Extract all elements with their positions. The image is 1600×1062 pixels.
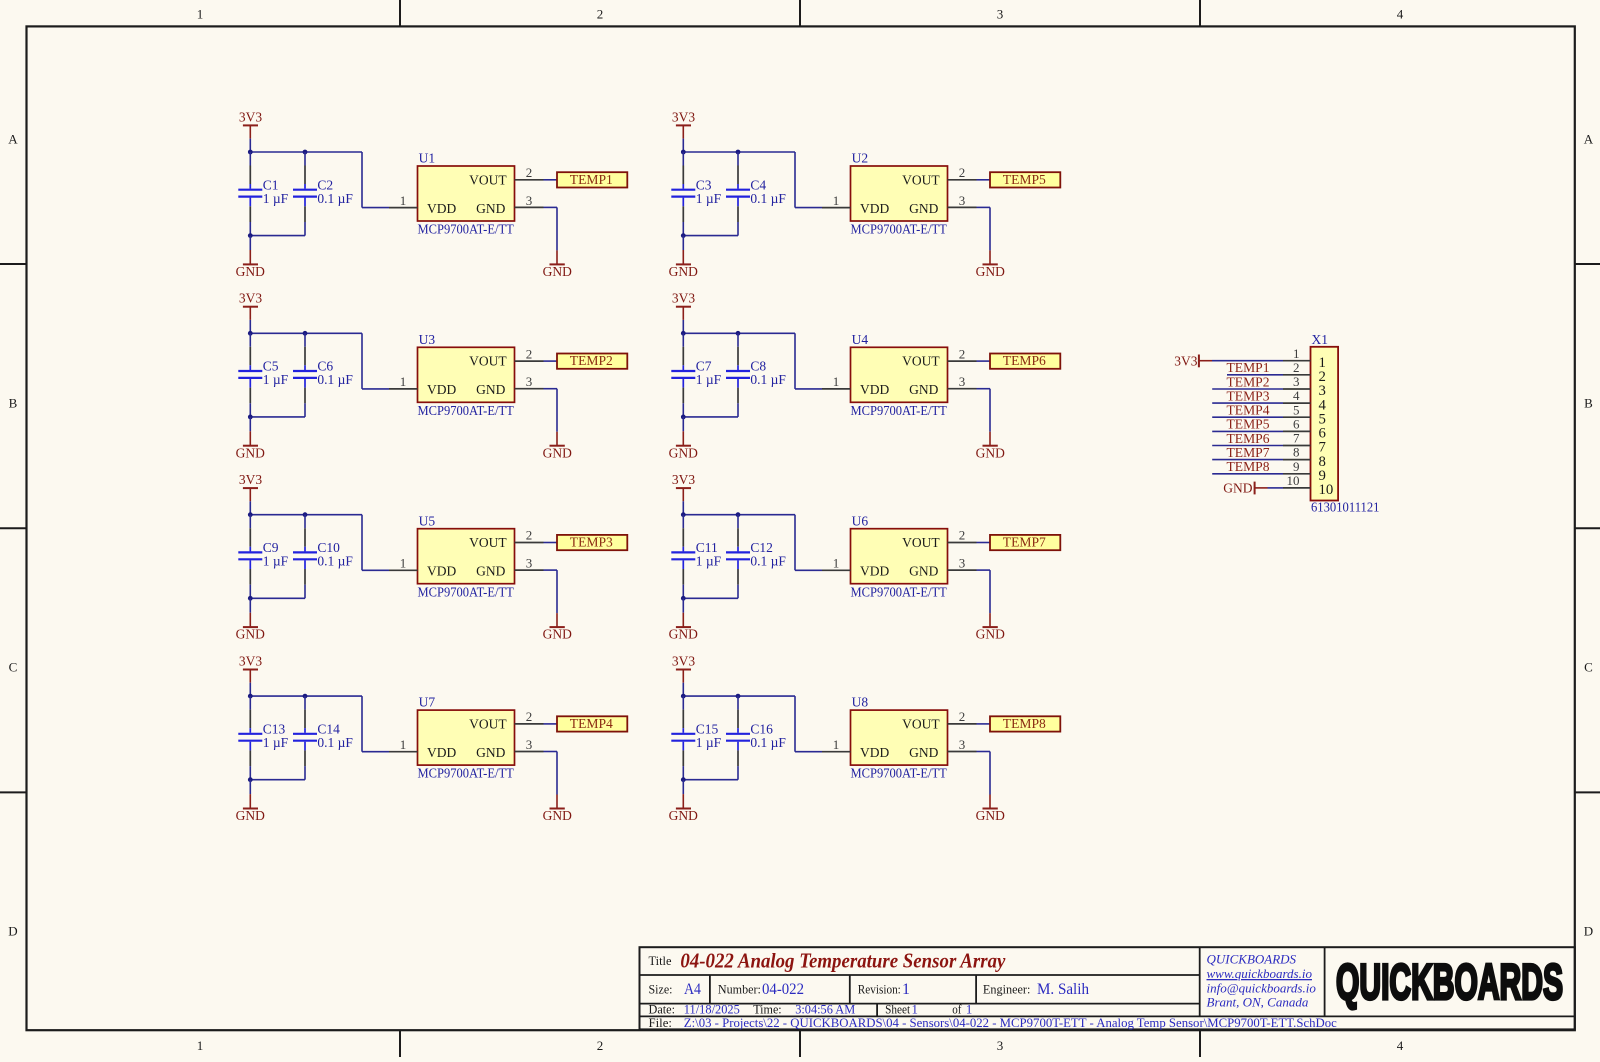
zone letters left bbox=[8, 131, 18, 938]
ground GND (X1 pin 10) bbox=[1223, 480, 1267, 495]
svg-text:TEMP4: TEMP4 bbox=[570, 716, 613, 731]
svg-text:1 µF: 1 µF bbox=[696, 554, 722, 569]
svg-text:3:04:56 AM: 3:04:56 AM bbox=[795, 1002, 855, 1016]
zone numbers top bbox=[197, 6, 1404, 21]
svg-text:GND: GND bbox=[976, 445, 1005, 460]
svg-text:MCP9700AT-E/TT: MCP9700AT-E/TT bbox=[418, 766, 515, 781]
wire to VDD pin bbox=[362, 152, 389, 208]
svg-text:VDD: VDD bbox=[427, 564, 456, 579]
svg-text:3: 3 bbox=[526, 374, 533, 389]
svg-text:4: 4 bbox=[1397, 1038, 1404, 1053]
svg-text:0.1 µF: 0.1 µF bbox=[750, 191, 786, 206]
X1 pin 4 bbox=[1283, 388, 1327, 413]
svg-text:GND: GND bbox=[669, 808, 698, 823]
wire VOUT to port bbox=[977, 179, 991, 181]
capacitor C15 1 µF bbox=[671, 696, 721, 780]
wire to VDD pin bbox=[795, 696, 822, 752]
wire cap bottoms bbox=[250, 597, 305, 599]
svg-text:QUICKBOARDS: QUICKBOARDS bbox=[1336, 954, 1563, 1010]
pin 1 VDD bbox=[389, 737, 418, 752]
svg-text:MCP9700AT-E/TT: MCP9700AT-E/TT bbox=[418, 584, 515, 599]
wire 3V3 stem bbox=[682, 139, 684, 152]
wire VOUT to port bbox=[977, 723, 991, 725]
X1 pin 1 bbox=[1283, 346, 1326, 371]
ground GND (right) bbox=[543, 613, 572, 642]
svg-text:VDD: VDD bbox=[427, 382, 456, 397]
pin 3 GND bbox=[515, 374, 544, 389]
ground GND (right) bbox=[976, 795, 1005, 824]
svg-text:A: A bbox=[8, 131, 18, 146]
svg-text:U7: U7 bbox=[419, 695, 436, 710]
svg-text:VDD: VDD bbox=[427, 201, 456, 216]
svg-text:3V3: 3V3 bbox=[239, 654, 262, 669]
wire net TEMP8 bbox=[1212, 473, 1283, 475]
IC U4 MCP9700AT-E/TT bbox=[851, 332, 948, 418]
capacitor C8 0.1 µF bbox=[726, 333, 786, 417]
svg-text:9: 9 bbox=[1293, 459, 1300, 474]
svg-text:of: of bbox=[952, 1002, 962, 1016]
svg-text:info@quickboards.io: info@quickboards.io bbox=[1207, 980, 1317, 995]
port TEMP1 bbox=[557, 172, 627, 188]
svg-text:C: C bbox=[1584, 659, 1593, 674]
junction at C6 top bbox=[303, 331, 308, 336]
svg-text:1 µF: 1 µF bbox=[263, 735, 289, 750]
wire power rail bbox=[250, 695, 362, 697]
svg-text:2: 2 bbox=[597, 6, 604, 21]
capacitor C11 1 µF bbox=[671, 515, 721, 599]
svg-text:TEMP7: TEMP7 bbox=[1003, 535, 1046, 550]
svg-text:TEMP1: TEMP1 bbox=[1227, 360, 1270, 375]
svg-text:1: 1 bbox=[400, 556, 407, 571]
wire power rail bbox=[683, 332, 795, 334]
wire power rail bbox=[250, 151, 362, 153]
size/number/revision/engineer row bbox=[649, 981, 1090, 998]
svg-text:VOUT: VOUT bbox=[902, 717, 940, 732]
svg-text:3: 3 bbox=[959, 193, 966, 208]
IC U2 MCP9700AT-E/TT bbox=[851, 151, 948, 237]
X1 pin 5 bbox=[1283, 402, 1326, 427]
pin 1 VDD bbox=[822, 556, 851, 571]
pin 2 VOUT bbox=[948, 346, 977, 361]
svg-text:7: 7 bbox=[1293, 431, 1300, 446]
pin 2 VOUT bbox=[948, 709, 977, 724]
svg-text:3V3: 3V3 bbox=[239, 291, 262, 306]
svg-text:2: 2 bbox=[959, 165, 966, 180]
svg-text:GND: GND bbox=[669, 445, 698, 460]
svg-text:VDD: VDD bbox=[860, 201, 889, 216]
svg-text:TEMP6: TEMP6 bbox=[1227, 431, 1270, 446]
wire 3V3 stem bbox=[249, 139, 251, 152]
port TEMP2 bbox=[557, 353, 627, 369]
svg-text:GND: GND bbox=[236, 264, 265, 279]
X1 pin 3 bbox=[1283, 374, 1326, 399]
capacitor C7 1 µF bbox=[671, 333, 721, 417]
power port 3V3 (circuit U3) bbox=[239, 291, 262, 320]
svg-text:1 µF: 1 µF bbox=[696, 735, 722, 750]
svg-text:GND: GND bbox=[543, 445, 572, 460]
svg-text:0.1 µF: 0.1 µF bbox=[317, 735, 353, 750]
capacitor C13 1 µF bbox=[238, 696, 288, 780]
svg-text:MCP9700AT-E/TT: MCP9700AT-E/TT bbox=[851, 766, 948, 781]
pin 1 VDD bbox=[389, 374, 418, 389]
svg-text:GND: GND bbox=[476, 745, 505, 760]
wire GND pin down bbox=[544, 207, 558, 250]
pin 2 VOUT bbox=[948, 528, 977, 543]
svg-text:1: 1 bbox=[1293, 346, 1300, 361]
svg-text:B: B bbox=[9, 395, 18, 410]
svg-text:QUICKBOARDS: QUICKBOARDS bbox=[1207, 952, 1297, 967]
ground GND (left) bbox=[669, 250, 698, 279]
junction at C7 bottom bbox=[681, 415, 686, 420]
svg-text:6: 6 bbox=[1293, 417, 1300, 432]
junction at C1 bottom bbox=[248, 233, 253, 238]
zone letters right bbox=[1584, 131, 1594, 938]
svg-text:1: 1 bbox=[400, 193, 407, 208]
power port 3V3 (circuit U6) bbox=[672, 472, 695, 501]
svg-text:0.1 µF: 0.1 µF bbox=[317, 554, 353, 569]
svg-text:VOUT: VOUT bbox=[469, 172, 507, 187]
wire cap bottoms bbox=[250, 416, 305, 418]
X1 pin 8 bbox=[1283, 445, 1326, 470]
svg-text:U4: U4 bbox=[852, 332, 869, 347]
junction at C12 top bbox=[736, 512, 741, 517]
capacitor C9 1 µF bbox=[238, 515, 288, 599]
ground GND (right) bbox=[976, 250, 1005, 279]
svg-text:GND: GND bbox=[909, 564, 938, 579]
svg-text:TEMP5: TEMP5 bbox=[1003, 172, 1046, 187]
svg-text:U2: U2 bbox=[852, 151, 869, 166]
svg-text:GND: GND bbox=[976, 627, 1005, 642]
X1 pin 7 bbox=[1283, 431, 1326, 456]
svg-text:0.1 µF: 0.1 µF bbox=[750, 372, 786, 387]
pin 3 GND bbox=[948, 737, 977, 752]
svg-text:Number:: Number: bbox=[718, 983, 761, 997]
svg-text:GND: GND bbox=[909, 201, 938, 216]
svg-text:1: 1 bbox=[400, 374, 407, 389]
junction at C11 bottom bbox=[681, 596, 686, 601]
svg-text:1 µF: 1 µF bbox=[263, 554, 289, 569]
svg-text:GND: GND bbox=[236, 808, 265, 823]
svg-text:Engineer:: Engineer: bbox=[983, 983, 1031, 997]
company info cell bbox=[1207, 952, 1317, 1010]
svg-text:3V3: 3V3 bbox=[672, 472, 695, 487]
svg-text:U8: U8 bbox=[852, 695, 869, 710]
svg-text:5: 5 bbox=[1293, 402, 1300, 417]
svg-text:TEMP8: TEMP8 bbox=[1003, 716, 1046, 731]
svg-text:3: 3 bbox=[1293, 374, 1300, 389]
X1 pin 6 bbox=[1283, 417, 1326, 442]
svg-text:3V3: 3V3 bbox=[672, 654, 695, 669]
IC U7 MCP9700AT-E/TT bbox=[418, 695, 515, 781]
wire VOUT to port bbox=[544, 179, 558, 181]
svg-text:04-022 Analog Temperature Sens: 04-022 Analog Temperature Sensor Array bbox=[680, 949, 1005, 973]
svg-text:1: 1 bbox=[197, 1038, 204, 1053]
pin 3 GND bbox=[515, 193, 544, 208]
svg-text:3V3: 3V3 bbox=[672, 109, 695, 124]
ground GND (left) bbox=[669, 431, 698, 460]
pin 1 VDD bbox=[822, 374, 851, 389]
ground GND (right) bbox=[976, 432, 1005, 461]
svg-text:www.quickboards.io: www.quickboards.io bbox=[1207, 966, 1313, 981]
svg-text:61301011121: 61301011121 bbox=[1311, 499, 1380, 514]
wire cap bottoms bbox=[683, 597, 738, 599]
svg-text:C: C bbox=[9, 659, 18, 674]
svg-text:2: 2 bbox=[597, 1038, 604, 1053]
wire 3V3 stem bbox=[682, 501, 684, 514]
ground GND (left) bbox=[236, 250, 265, 279]
pin 1 VDD bbox=[822, 193, 851, 208]
svg-text:VOUT: VOUT bbox=[469, 717, 507, 732]
svg-text:A: A bbox=[1584, 131, 1594, 146]
svg-text:11/18/2025: 11/18/2025 bbox=[684, 1002, 740, 1016]
IC U1 MCP9700AT-E/TT bbox=[418, 151, 515, 237]
wire to VDD pin bbox=[795, 515, 822, 571]
junction at C5 top bbox=[248, 331, 253, 336]
wire GND pin down bbox=[977, 570, 991, 613]
wire to GND bbox=[682, 236, 684, 250]
pin 2 VOUT bbox=[948, 165, 977, 180]
svg-text:GND: GND bbox=[909, 745, 938, 760]
power port 3V3 (X1 pin 1) bbox=[1174, 353, 1212, 368]
ground GND (left) bbox=[236, 613, 265, 642]
svg-text:X1: X1 bbox=[1312, 332, 1329, 347]
pin 2 VOUT bbox=[515, 709, 544, 724]
wire cap bottoms bbox=[683, 416, 738, 418]
ground GND (left) bbox=[669, 613, 698, 642]
wire 3V3 stem bbox=[249, 683, 251, 696]
wire GND pin down bbox=[544, 389, 558, 432]
svg-text:3: 3 bbox=[526, 193, 533, 208]
svg-text:0.1 µF: 0.1 µF bbox=[317, 191, 353, 206]
svg-text:3: 3 bbox=[997, 6, 1004, 21]
svg-text:MCP9700AT-E/TT: MCP9700AT-E/TT bbox=[851, 584, 948, 599]
IC U3 MCP9700AT-E/TT bbox=[418, 332, 515, 418]
wire 3V3 to X1 pin 1 bbox=[1212, 360, 1283, 362]
svg-text:GND: GND bbox=[543, 627, 572, 642]
svg-text:VOUT: VOUT bbox=[902, 535, 940, 550]
ground GND (right) bbox=[543, 795, 572, 824]
svg-text:Size:: Size: bbox=[649, 983, 673, 997]
svg-text:A4: A4 bbox=[684, 981, 701, 998]
wire power rail bbox=[250, 332, 362, 334]
ground GND (right) bbox=[543, 250, 572, 279]
capacitor C16 0.1 µF bbox=[726, 696, 786, 780]
svg-text:VOUT: VOUT bbox=[469, 354, 507, 369]
power port 3V3 (circuit U5) bbox=[239, 472, 262, 501]
svg-text:8: 8 bbox=[1293, 445, 1300, 460]
power port 3V3 (circuit U1) bbox=[239, 109, 262, 138]
svg-text:3V3: 3V3 bbox=[1174, 353, 1197, 368]
pin 2 VOUT bbox=[515, 165, 544, 180]
svg-text:GND: GND bbox=[669, 264, 698, 279]
wire power rail bbox=[250, 514, 362, 516]
svg-text:GND: GND bbox=[543, 264, 572, 279]
svg-text:GND: GND bbox=[476, 564, 505, 579]
svg-text:2: 2 bbox=[1293, 360, 1300, 375]
wire to VDD pin bbox=[795, 333, 822, 389]
svg-text:3: 3 bbox=[959, 556, 966, 571]
svg-text:TEMP2: TEMP2 bbox=[1227, 374, 1270, 389]
ground GND (left) bbox=[236, 794, 265, 823]
svg-text:04-022: 04-022 bbox=[762, 981, 804, 998]
capacitor C14 0.1 µF bbox=[293, 696, 353, 780]
wire GND to X1 pin 10 bbox=[1268, 487, 1284, 489]
X1 pin 10 bbox=[1283, 473, 1333, 498]
svg-text:TEMP6: TEMP6 bbox=[1003, 353, 1046, 368]
svg-text:3: 3 bbox=[959, 374, 966, 389]
svg-text:1: 1 bbox=[400, 737, 407, 752]
power port 3V3 (circuit U7) bbox=[239, 654, 262, 683]
junction at C10 top bbox=[303, 512, 308, 517]
junction at C2 top bbox=[303, 150, 308, 155]
svg-text:File:: File: bbox=[649, 1016, 673, 1030]
svg-text:1: 1 bbox=[197, 6, 204, 21]
svg-text:U3: U3 bbox=[419, 332, 436, 347]
svg-text:1 µF: 1 µF bbox=[263, 191, 289, 206]
junction at C9 bottom bbox=[248, 596, 253, 601]
ground GND (right) bbox=[543, 432, 572, 461]
svg-text:VOUT: VOUT bbox=[469, 535, 507, 550]
junction at C7 top bbox=[681, 331, 686, 336]
pin 3 GND bbox=[948, 556, 977, 571]
svg-text:Date:: Date: bbox=[649, 1002, 676, 1016]
svg-text:TEMP2: TEMP2 bbox=[570, 353, 613, 368]
wire to GND bbox=[249, 236, 251, 250]
svg-text:2: 2 bbox=[959, 709, 966, 724]
svg-text:0.1 µF: 0.1 µF bbox=[317, 372, 353, 387]
svg-text:B: B bbox=[1584, 395, 1593, 410]
svg-text:VDD: VDD bbox=[860, 382, 889, 397]
svg-text:MCP9700AT-E/TT: MCP9700AT-E/TT bbox=[851, 222, 948, 237]
svg-text:1: 1 bbox=[833, 556, 840, 571]
capacitor C5 1 µF bbox=[238, 333, 288, 417]
wire net TEMP2 bbox=[1212, 388, 1283, 390]
wire to GND bbox=[249, 417, 251, 431]
wire 3V3 stem bbox=[249, 501, 251, 514]
power port 3V3 (circuit U8) bbox=[672, 654, 695, 683]
capacitor C12 0.1 µF bbox=[726, 515, 786, 599]
wire to VDD pin bbox=[362, 696, 389, 752]
wire net TEMP3 bbox=[1212, 402, 1283, 404]
svg-text:MCP9700AT-E/TT: MCP9700AT-E/TT bbox=[851, 403, 948, 418]
wire power rail bbox=[683, 151, 795, 153]
svg-text:TEMP4: TEMP4 bbox=[1227, 403, 1270, 418]
wire net TEMP1 bbox=[1227, 374, 1283, 376]
svg-text:GND: GND bbox=[236, 627, 265, 642]
port TEMP6 bbox=[990, 353, 1060, 369]
svg-text:D: D bbox=[1584, 923, 1593, 938]
svg-text:2: 2 bbox=[526, 528, 533, 543]
svg-text:10: 10 bbox=[1287, 473, 1300, 488]
wire 3V3 stem bbox=[682, 683, 684, 696]
wire 3V3 stem bbox=[682, 320, 684, 333]
svg-text:GND: GND bbox=[669, 627, 698, 642]
svg-text:GND: GND bbox=[976, 264, 1005, 279]
svg-text:TEMP3: TEMP3 bbox=[570, 535, 613, 550]
wire GND pin down bbox=[977, 207, 991, 250]
wire to GND bbox=[682, 598, 684, 612]
svg-text:U5: U5 bbox=[419, 513, 436, 528]
date/time/sheet row bbox=[649, 1002, 973, 1016]
svg-text:1: 1 bbox=[833, 374, 840, 389]
junction at C4 top bbox=[736, 150, 741, 155]
wire to GND bbox=[249, 780, 251, 794]
svg-text:1 µF: 1 µF bbox=[263, 372, 289, 387]
capacitor C3 1 µF bbox=[671, 152, 721, 236]
ground GND (left) bbox=[236, 431, 265, 460]
svg-text:VOUT: VOUT bbox=[902, 354, 940, 369]
wire to GND bbox=[682, 780, 684, 794]
svg-text:GND: GND bbox=[543, 808, 572, 823]
pin 3 GND bbox=[948, 193, 977, 208]
wire VOUT to port bbox=[544, 360, 558, 362]
svg-text:3V3: 3V3 bbox=[239, 472, 262, 487]
pin 3 GND bbox=[515, 556, 544, 571]
pin 2 VOUT bbox=[515, 528, 544, 543]
junction at C1 top bbox=[248, 150, 253, 155]
pin 1 VDD bbox=[389, 193, 418, 208]
wire net TEMP6 bbox=[1212, 445, 1283, 447]
wire 3V3 stem bbox=[249, 320, 251, 333]
svg-text:10: 10 bbox=[1319, 482, 1334, 498]
wire net TEMP4 bbox=[1212, 416, 1283, 418]
power port 3V3 (circuit U2) bbox=[672, 109, 695, 138]
svg-text:GND: GND bbox=[976, 808, 1005, 823]
wire GND pin down bbox=[544, 752, 558, 795]
svg-text:TEMP3: TEMP3 bbox=[1227, 388, 1270, 403]
junction at C14 top bbox=[303, 694, 308, 699]
wire cap bottoms bbox=[250, 779, 305, 781]
svg-text:3V3: 3V3 bbox=[672, 291, 695, 306]
capacitor C2 0.1 µF bbox=[293, 152, 353, 236]
ground GND (left) bbox=[669, 794, 698, 823]
title block grid bbox=[640, 947, 1575, 1029]
wire cap bottoms bbox=[683, 235, 738, 237]
svg-text:3: 3 bbox=[526, 737, 533, 752]
svg-text:1: 1 bbox=[833, 737, 840, 752]
svg-text:VOUT: VOUT bbox=[902, 172, 940, 187]
wire VOUT to port bbox=[544, 723, 558, 725]
svg-text:MCP9700AT-E/TT: MCP9700AT-E/TT bbox=[418, 222, 515, 237]
capacitor C10 0.1 µF bbox=[293, 515, 353, 599]
zone numbers bottom bbox=[197, 1038, 1404, 1053]
svg-text:U6: U6 bbox=[852, 513, 869, 528]
svg-text:2: 2 bbox=[526, 709, 533, 724]
svg-text:GND: GND bbox=[236, 445, 265, 460]
pin 2 VOUT bbox=[515, 346, 544, 361]
port TEMP3 bbox=[557, 535, 627, 551]
pin 3 GND bbox=[948, 374, 977, 389]
pin 3 GND bbox=[515, 737, 544, 752]
svg-text:1: 1 bbox=[966, 1002, 972, 1016]
svg-text:D: D bbox=[8, 923, 17, 938]
wire VOUT to port bbox=[977, 360, 991, 362]
wire net TEMP7 bbox=[1212, 459, 1283, 461]
svg-text:1 µF: 1 µF bbox=[696, 372, 722, 387]
title row bbox=[649, 949, 1006, 973]
ground GND (right) bbox=[976, 613, 1005, 642]
svg-text:MCP9700AT-E/TT: MCP9700AT-E/TT bbox=[418, 403, 515, 418]
port TEMP8 bbox=[990, 716, 1060, 732]
svg-text:U1: U1 bbox=[419, 151, 436, 166]
X1 pin 9 bbox=[1283, 459, 1326, 484]
svg-text:Z:\03 - Projects\22 - QUICKBOA: Z:\03 - Projects\22 - QUICKBOARDS\04 - S… bbox=[684, 1016, 1337, 1030]
svg-text:GND: GND bbox=[476, 382, 505, 397]
svg-text:4: 4 bbox=[1293, 388, 1300, 403]
junction at C3 bottom bbox=[681, 233, 686, 238]
svg-text:3: 3 bbox=[997, 1038, 1004, 1053]
wire GND pin down bbox=[977, 389, 991, 432]
